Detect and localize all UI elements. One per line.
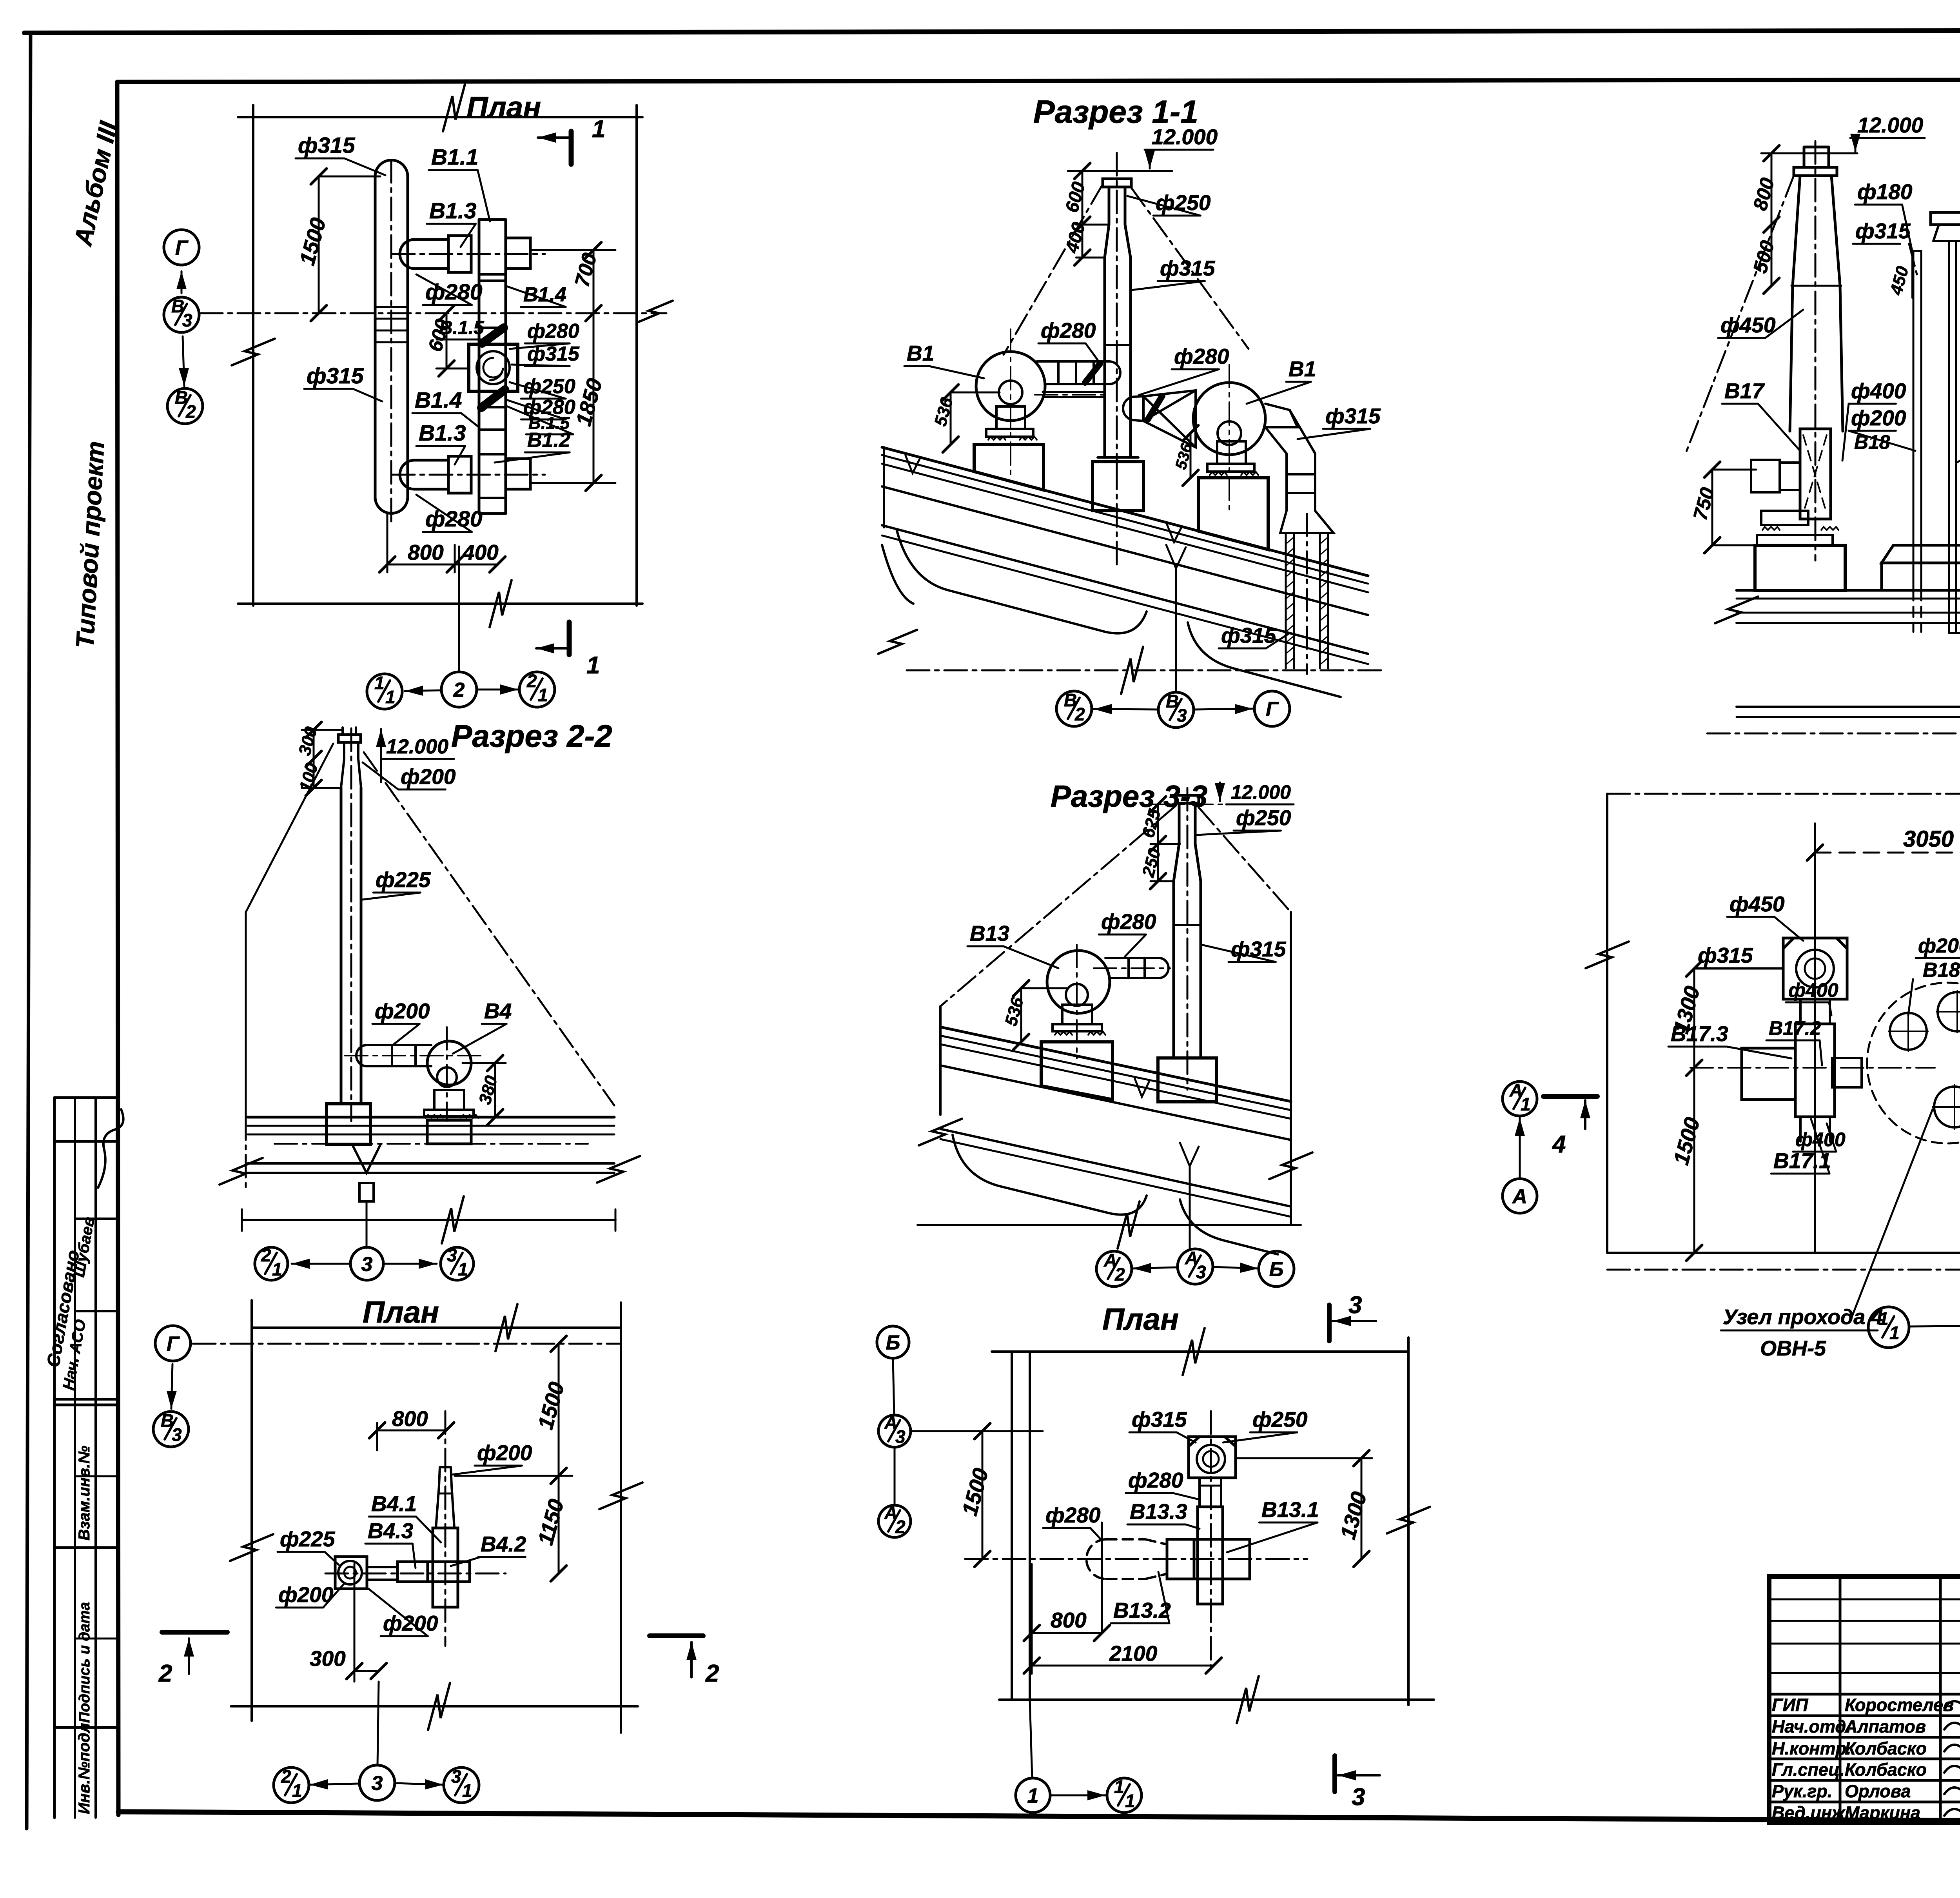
outer border left [27,33,31,1829]
view H dim 1300 left [1694,969,1783,1068]
view H circle VE16 [1934,1087,1960,1127]
view C block B4.3 [397,1562,428,1582]
view E fan B13 hub [1066,984,1088,1006]
svg-text:ф315: ф315 [1160,256,1216,280]
view A fan unit top silencer [400,236,448,272]
svg-text:2: 2 [453,679,465,702]
view C duct to box [367,1567,397,1580]
svg-text:ф280: ф280 [1101,909,1156,934]
svg-text:1: 1 [586,652,600,679]
view A fan unit top centerline [392,253,545,255]
view E lower slab [940,1129,1291,1207]
view D roof left edge [883,447,885,527]
view B fan centerline [345,1055,482,1056]
view D outlet end cap [1109,361,1120,384]
view C boundary right [620,1303,622,1733]
view B fan B4 hub [437,1067,457,1087]
view F boundary bottom [999,1698,1434,1701]
view C unit vertical centerline [445,1411,446,1646]
svg-text:В1: В1 [1289,357,1316,381]
svg-text:Г: Г [167,1333,180,1355]
svg-text:В1.3: В1.3 [419,421,466,446]
view D bottom level line [907,670,1383,671]
view H circle VE8 [1938,992,1960,1031]
view E stack flange [1176,795,1199,803]
view F axis drop [1030,1700,1032,1778]
svg-text:Узел прохода 4: Узел прохода 4 [1723,1305,1883,1329]
view D level line [1068,170,1172,172]
view A boundary bottom [238,602,642,605]
view A fan unit top outlet box [506,238,530,269]
view A fan unit bottom box [448,456,471,493]
view D fan right centerline [1229,365,1230,510]
view B dim 380 [463,1063,506,1117]
view C axis drop [377,1682,379,1765]
view D fan B1 right inlet cone [1143,390,1196,447]
view B axis arrows [292,1263,349,1265]
view D stack f315 duct [1105,258,1131,457]
svg-text:ф200: ф200 [1851,406,1906,430]
inner frame bottom [118,1812,1960,1824]
view C boundary bottom [231,1705,638,1707]
view H boundary top axis line [1607,793,1960,795]
svg-text:2: 2 [261,1245,271,1265]
svg-text:Нач.отд.: Нач.отд. [1772,1717,1851,1737]
view H left box circles [1796,950,1834,987]
view B stack plinth [327,1104,370,1144]
view B stack centerline [350,728,352,1121]
view G roof lines [1737,589,1960,592]
view B bottom level line [242,1219,615,1221]
view F unit centerline horizontal [965,1558,1307,1560]
view G B17 plinth [1755,545,1845,590]
svg-text:800: 800 [1051,1608,1087,1632]
svg-text:ф280: ф280 [1045,1503,1101,1527]
view A duct riser joints [375,306,408,308]
svg-text:300: 300 [310,1646,346,1671]
svg-text:800: 800 [408,540,444,564]
view D fan right pedestal [1199,478,1268,550]
view B axis drop line [366,1201,368,1248]
view H axis connectors [1909,1325,1960,1327]
view H boundary left [1606,794,1608,1253]
view C axis G line [193,1343,619,1345]
view A damper top (black) [482,328,504,343]
view H axis circle A/1 [1503,1081,1537,1116]
view G B17 base frame [1757,535,1833,545]
svg-text:В1.2: В1.2 [527,429,570,452]
svg-text:12.000: 12.000 [386,735,448,758]
view C axis circle 2/1 [274,1767,309,1803]
view F unit B13.1 vertical [1198,1507,1223,1604]
svg-text:3: 3 [1177,705,1187,726]
view H left unit horizontal [1742,1048,1795,1100]
view G duct f355 pair [1949,241,1960,633]
view E stack f250 [1174,803,1201,881]
view E level line [1152,804,1286,805]
view C section mark 2 left [162,1630,227,1635]
svg-text:ф200: ф200 [375,999,430,1023]
svg-text:1: 1 [458,1259,468,1279]
view C axis arrow G to V3 [171,1364,172,1409]
svg-text:ф315: ф315 [307,363,364,388]
svg-text:Колбаско: Колбаско [1845,1738,1927,1758]
view D fan B1 right inlet cap [1123,396,1143,421]
svg-text:В1.4: В1.4 [415,388,462,413]
view B sight line left [246,744,333,912]
svg-text:1: 1 [385,687,396,707]
svg-text:ф315: ф315 [1221,623,1277,648]
view B fan B4 silencer duct [356,1045,431,1066]
svg-text:1: 1 [374,673,385,693]
view D flare skirt [1280,511,1334,533]
svg-text:ф280: ф280 [527,320,579,343]
view D right vertical duct [1287,454,1315,511]
view E bottom level line [918,1224,1301,1226]
view B dims 300 100 [302,730,341,788]
view B stack duct f225 [341,788,361,1104]
view G duct f180 pair [1913,251,1921,590]
svg-text:Н.контр.: Н.контр. [1772,1738,1851,1758]
svg-text:3: 3 [451,1766,461,1787]
view G bottom level line [1707,733,1960,735]
view D fan B1 right casing [1193,383,1265,455]
svg-text:ОВН-5: ОВН-5 [1760,1337,1826,1360]
svg-text:3050: 3050 [1903,826,1954,852]
svg-text:Рук.гр.: Рук.гр. [1772,1781,1832,1801]
view D fan left motor [996,406,1025,429]
view D stack f250 section [1105,187,1131,258]
view A axis circle 8/3 [164,297,199,332]
svg-text:2: 2 [526,671,537,691]
view C boundary left [250,1300,253,1721]
svg-text:Гл.спец.: Гл.спец. [1772,1760,1845,1780]
view A axis circle 8/2 [167,388,203,424]
view E dim 536 [1021,988,1066,1042]
svg-text:1: 1 [1114,1776,1124,1797]
view C axis circle V/3 [153,1412,189,1447]
view E sight line left [940,806,1176,1006]
view B stack top cap [343,728,356,735]
svg-text:1: 1 [592,116,605,143]
view H left corner box [1783,938,1847,999]
view C elbow circles [338,1561,362,1584]
svg-text:1: 1 [1027,1785,1039,1807]
svg-text:ф315: ф315 [298,133,356,158]
view D fan B1 left outlet duct [1037,361,1109,384]
view A damper bottom (black) [481,390,505,408]
view A axis circle 2 [441,672,477,707]
view C axis circle 3/1 [444,1767,479,1803]
view D stack centerline [1116,153,1118,564]
view G left stack flange [1794,167,1837,176]
view C taper duct up [436,1467,454,1528]
svg-text:1: 1 [1521,1094,1531,1114]
view C axis circle 3 [359,1765,395,1800]
svg-text:3: 3 [182,310,192,330]
view E stack f315 [1174,881,1201,1058]
svg-text:Подпись и дата: Подпись и дата [76,1602,93,1723]
svg-text:3: 3 [1348,1292,1362,1319]
view E axis circle A/2 [1096,1251,1132,1287]
view C dim 300 [354,1564,379,1682]
view B duct below slab [359,1183,374,1201]
view A boundary left vertical [252,105,254,606]
svg-text:3: 3 [361,1253,373,1276]
view B fan motor [434,1090,464,1110]
svg-text:3: 3 [172,1424,182,1445]
svg-text:Вед.инж.: Вед.инж. [1772,1803,1850,1823]
svg-text:В1.3: В1.3 [429,198,477,223]
view A section mark 1 bottom [567,622,572,655]
svg-text:3: 3 [372,1772,383,1795]
svg-text:3: 3 [1352,1784,1365,1811]
svg-text:ф200: ф200 [477,1441,532,1465]
svg-text:1: 1 [1878,1308,1889,1329]
view G B17 inlet duct [1751,460,1780,492]
view G fan B17 box [1800,429,1831,519]
view E roof deck [940,1027,1291,1101]
svg-text:400: 400 [462,540,499,564]
view A axis line 8/3 [200,312,666,314]
view E dim 625 250 [1151,804,1180,881]
view H left centerlines [1690,1067,1935,1069]
view E axis circle A/3 [1178,1249,1213,1284]
svg-text:В4.3: В4.3 [368,1519,413,1543]
view G B17 motor plate [1761,511,1808,525]
view D roof panel joints V [906,455,920,473]
view H dashed circle OVN-5 [1867,983,1960,1143]
view G middle plinth [1882,545,1960,563]
view F silencer dashed [1087,1539,1146,1579]
view D roof deck lines [882,447,1368,576]
view A section mark 1 top [569,131,574,164]
view B sight line right [364,752,614,1105]
svg-text:В1: В1 [907,341,934,365]
view F section mark 3 top [1327,1305,1332,1341]
view E stack centerline [1187,788,1189,1090]
view D funnel under roof [1166,545,1186,568]
title block rows left table [1769,1599,1960,1600]
view E roof joint V [1135,1079,1149,1097]
svg-text:1: 1 [272,1259,282,1279]
view F vertical duct up [1200,1478,1221,1507]
margin stamp signature [98,1109,123,1188]
view H left unit vertical [1800,999,1830,1024]
view H lower axis line [1607,1269,1960,1271]
view H axis arrow A to A1 [1519,1118,1521,1178]
svg-text:3: 3 [447,1245,457,1265]
view H dim 3050 2200 [1815,852,1960,854]
view D axis circle 8/2 [1056,691,1092,726]
svg-text:1: 1 [1125,1791,1135,1811]
view C dim 800 [377,1423,446,1450]
svg-text:1: 1 [292,1780,302,1801]
svg-text:12.000: 12.000 [1152,125,1218,149]
svg-text:В17.2: В17.2 [1769,1017,1821,1039]
svg-text:План: План [466,91,541,124]
svg-text:2100: 2100 [1109,1641,1158,1666]
svg-text:В13: В13 [970,921,1009,945]
svg-text:ф200: ф200 [278,1582,334,1607]
svg-text:Взам.инв.№: Взам.инв.№ [76,1446,93,1541]
view H section mark 4 left [1543,1094,1597,1099]
view D sight line left [1004,184,1103,355]
view E funnel under plinth [1180,1143,1199,1166]
view F boundary right [1407,1337,1410,1705]
view E fan centerline [1076,945,1078,1058]
view A dim right 700 1850 [530,250,615,483]
view B ceiling slab lines [248,1162,614,1165]
view A axis circle 2/1 [519,672,555,707]
view B roof lines [248,1116,614,1119]
view D dim 600 400 [1076,171,1109,258]
view D damper left (black) [1085,364,1100,383]
view D duct through roof hatched [1286,533,1328,668]
view C dim 1500 1150 [455,1344,572,1573]
svg-text:В.1.5: В.1.5 [439,318,485,338]
view D fan B1 left casing [976,352,1045,421]
view D duct under fan [1043,392,1105,397]
view A roof passage circles [477,351,510,384]
view D damper right (black) [1148,396,1162,419]
view F left axis circles [877,1326,909,1358]
view G sight line left [1686,176,1794,454]
view F dim 2100 [1032,1564,1214,1674]
view H axis circle 1/1 [1868,1307,1909,1348]
view C unit crossing horizontal [428,1562,470,1582]
view B axis circle 3 [350,1247,383,1280]
view B duct through roof funnel [352,1144,381,1173]
view H boundary bottom [1607,1252,1960,1254]
view A boundary top [238,116,642,118]
view A riser B1.1 joints [479,273,506,276]
view B axis circle 2/1 [255,1247,288,1280]
inner frame left [117,82,118,1815]
view C boundary top [252,1326,619,1329]
view B break marks roof [220,1158,263,1185]
svg-text:В18: В18 [1923,959,1960,982]
view H circle B18 [1890,1013,1927,1050]
view F axis connector [1051,1795,1105,1796]
view D stack flange [1103,179,1131,187]
view F axis circle 1/1 [1107,1778,1142,1813]
view D axis circle G [1254,691,1290,726]
view A dim 800 400 [387,514,497,572]
svg-text:ф200: ф200 [1918,934,1960,957]
view C section mark 2 right [650,1633,703,1638]
svg-text:ф400: ф400 [1795,1129,1846,1150]
view C unit B4.2 vertical [433,1528,458,1607]
view F block [1167,1539,1194,1579]
view F axis circle 1 [1016,1778,1050,1813]
view C elbow box [335,1557,367,1589]
view E sight line right [1199,807,1291,912]
view D stack plinth [1098,456,1138,459]
svg-text:Коростелев: Коростелев [1845,1695,1954,1715]
view F axis A3 line [911,1430,1043,1432]
view E right outline [1290,912,1292,1225]
svg-text:ф450: ф450 [1720,313,1776,337]
view D dim 536 left [951,392,1000,445]
view D fan B1 left hub [999,381,1022,404]
svg-text:1: 1 [462,1780,472,1801]
view A fan unit bottom centerline [392,474,545,476]
svg-text:3: 3 [895,1426,906,1447]
svg-text:ф450: ф450 [1730,892,1785,916]
view D fan left pedestal [974,445,1044,490]
svg-text:12.000: 12.000 [1231,781,1291,803]
svg-text:Г: Г [175,237,189,259]
svg-text:4: 4 [1552,1131,1566,1158]
view A dim 600 [436,313,469,368]
view A duct riser centerline [390,160,392,525]
svg-text:12.000: 12.000 [1857,113,1924,137]
view A fan unit bottom outlet box [506,459,530,489]
svg-text:ф315: ф315 [1132,1407,1187,1432]
view F corner box circles [1197,1445,1225,1473]
svg-text:1: 1 [1889,1323,1900,1343]
svg-text:ф315: ф315 [1855,219,1911,243]
view D axis circle 8/3 [1158,692,1194,728]
view A axis circle G [164,230,199,265]
view G deflector cap [1931,212,1960,225]
svg-text:ф225: ф225 [280,1527,336,1551]
view D left wall edge [882,545,913,604]
view E fan motor [1062,1005,1092,1024]
svg-text:Б: Б [886,1332,900,1354]
view E fan B13 casing [1047,951,1110,1013]
inner frame top [117,79,1960,82]
svg-text:ф250: ф250 [1236,806,1291,830]
view F dim 800 [1032,1632,1102,1634]
view H dim 1500 left [1693,1068,1695,1253]
svg-text:2: 2 [281,1766,291,1787]
view G left stack taper [1790,176,1843,431]
svg-text:ф400: ф400 [1788,979,1838,1001]
view D rib curves [897,529,1147,633]
svg-text:Маркина: Маркина [1845,1803,1920,1823]
view D fan right motor [1217,441,1246,464]
view E rib curves [953,1135,1147,1215]
svg-text:ф250: ф250 [1252,1407,1308,1432]
view E fan outlet duct to stack [1105,958,1160,978]
svg-text:ф180: ф180 [1857,180,1913,204]
svg-text:В4: В4 [484,999,512,1023]
view F dim 1300 [1236,1458,1372,1559]
view E fan pedestal [1041,1042,1112,1100]
svg-text:ф280: ф280 [1128,1468,1183,1492]
view G ceiling lines [1737,706,1960,708]
svg-text:Орлова: Орлова [1845,1781,1911,1801]
svg-text:План: План [363,1295,439,1329]
view B stack neck [341,744,361,788]
view G dims 800 500 [1771,153,1773,286]
view A riser B1.1 vertical duct [479,220,506,514]
svg-text:ГИП: ГИП [1772,1695,1809,1715]
view F ref line for 800 [1101,1522,1103,1633]
view A roof passage unit box [469,344,518,391]
view F boundary top [992,1350,1408,1353]
svg-text:В13.3: В13.3 [1130,1499,1187,1524]
svg-text:План: План [1102,1302,1179,1336]
svg-text:В4.2: В4.2 [481,1532,526,1556]
svg-text:2: 2 [185,401,196,422]
view F dim 1500 vertical [982,1431,984,1559]
svg-text:В13.2: В13.2 [1113,1598,1171,1622]
svg-text:2: 2 [1114,1264,1125,1285]
view E stack plinth [1158,1058,1216,1102]
